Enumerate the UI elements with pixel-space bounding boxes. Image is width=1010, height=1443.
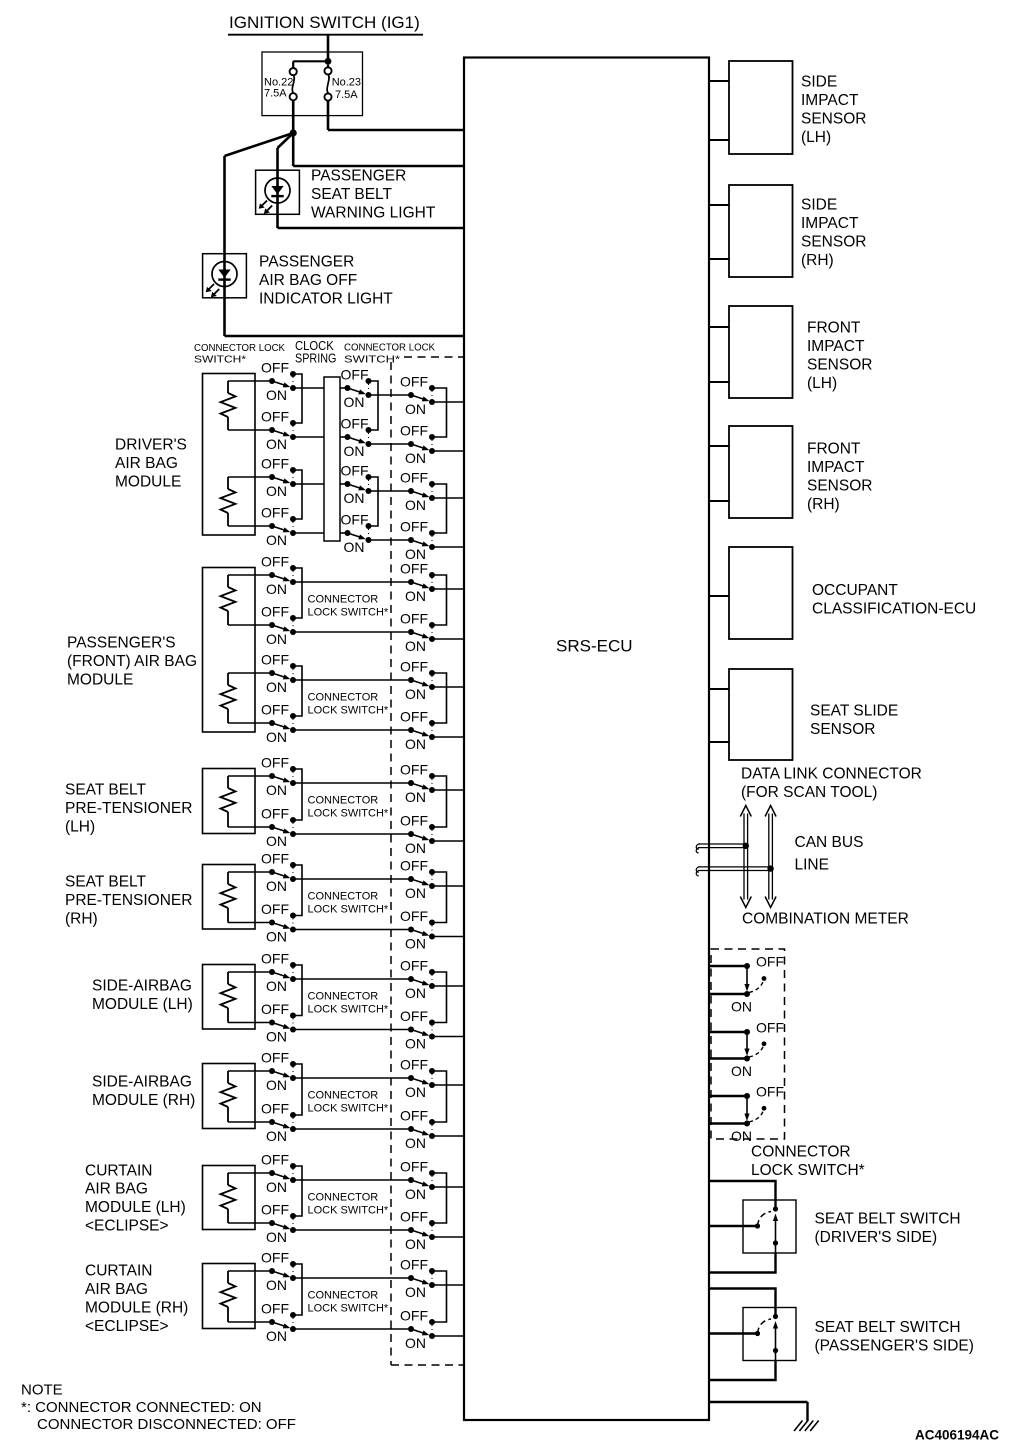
svg-text:ON: ON bbox=[344, 443, 365, 459]
svg-text:LOCK SWITCH*: LOCK SWITCH* bbox=[751, 1162, 865, 1179]
wire curtain air bag module (RH) row y=1271 to connector lock switch bbox=[228, 1270, 272, 1272]
shorting bar ECU-side driver's air bag module pair 1 bbox=[432, 388, 447, 437]
svg-text:ON: ON bbox=[405, 1135, 426, 1151]
wire warning light to SRS-ECU bbox=[278, 227, 465, 230]
svg-text:OFF: OFF bbox=[261, 652, 289, 668]
svg-text:SRS-ECU: SRS-ECU bbox=[556, 637, 633, 656]
svg-text:ON: ON bbox=[266, 1179, 287, 1195]
svg-text:SEAT BELT SWITCH: SEAT BELT SWITCH bbox=[815, 1319, 961, 1336]
svg-text:ON: ON bbox=[266, 833, 287, 849]
label connector lock switch of side-airbag module (RH) pair 1 bbox=[308, 1090, 389, 1115]
wire side-airbag module (LH) row y=972 to connector lock switch bbox=[228, 971, 272, 973]
svg-text:ON: ON bbox=[731, 1128, 752, 1144]
squib resistor 1 of curtain air bag module (RH) bbox=[221, 1271, 236, 1322]
wire stage2 to ECU-side lock switch row y=381 bbox=[369, 394, 412, 396]
wire stage1 to ECU-side lock switch row y=575 bbox=[293, 581, 411, 583]
junction box (fuse block) bbox=[262, 52, 363, 116]
svg-text:OFF: OFF bbox=[400, 470, 428, 486]
indicator lamp: passenger seat belt warning light bbox=[256, 170, 300, 214]
svg-text:OFF: OFF bbox=[261, 409, 289, 425]
label passenger's (front) air bag module bbox=[67, 635, 197, 689]
wire SRS-ECU to side impact sensor (LH) y=81 bbox=[709, 80, 729, 82]
svg-text:SIDE-AIRBAG: SIDE-AIRBAG bbox=[92, 978, 192, 995]
module box passenger's (front) air bag module bbox=[203, 568, 256, 733]
wire stage1 to ECU-side lock switch row y=922.5 bbox=[293, 929, 411, 931]
label seat slide sensor bbox=[810, 703, 898, 738]
wire to SRS-ECU row y=381 bbox=[432, 401, 464, 403]
svg-text:OFF: OFF bbox=[261, 851, 289, 867]
wire junction to SRS-ECU bbox=[293, 165, 464, 168]
ECU connector lock switch driver's air bag module row y=381 bbox=[400, 374, 435, 417]
svg-text:SEAT BELT: SEAT BELT bbox=[311, 186, 393, 203]
wire fuse No.23 down bbox=[327, 101, 330, 130]
wire seat belt pre-tensioner (RH) row y=922.5 to connector lock switch bbox=[228, 922, 272, 924]
ECU connector lock switch side-airbag module (RH) row y=1122 bbox=[400, 1108, 435, 1151]
connector lock switch stage2 driver's air bag module row y=526 bbox=[341, 512, 372, 555]
squib resistor 1 of passenger's (front) air bag module bbox=[221, 575, 236, 625]
ECU connector lock switch curtain air bag module (LH) row y=1173 bbox=[400, 1159, 435, 1202]
label seat belt switch (passenger's side) bbox=[815, 1319, 974, 1354]
wire to SRS-ECU row y=1322 bbox=[432, 1335, 464, 1337]
module box seat belt pre-tensioner (RH) bbox=[203, 865, 256, 930]
svg-text:CONNECTOR: CONNECTOR bbox=[308, 1090, 379, 1102]
svg-text:SENSOR: SENSOR bbox=[807, 478, 872, 495]
wire stage2 to ECU-side lock switch row y=430 bbox=[369, 443, 412, 445]
connector lock switch stage1 curtain air bag module (RH) row y=1271 bbox=[261, 1250, 296, 1293]
box front impact sensor (LH) bbox=[729, 306, 793, 398]
wire to SRS-ECU row y=1071 bbox=[432, 1084, 464, 1086]
CAN bus line 2 (twisted pair) bbox=[696, 867, 770, 876]
wire stage1 to clock spring row y=381 bbox=[293, 387, 324, 389]
connector lock switch stage1 passenger's (front) air bag module row y=625 bbox=[261, 604, 296, 647]
svg-text:ON: ON bbox=[405, 789, 426, 805]
shorting bar stage1 curtain air bag module (RH) pair 1 bbox=[293, 1264, 302, 1315]
junction CAN line 2 / arrow 2 bbox=[767, 865, 773, 871]
connector lock switch stage1 passenger's (front) air bag module row y=723 bbox=[261, 702, 296, 745]
wire stage1 to ECU-side lock switch row y=625 bbox=[293, 631, 411, 633]
wire SRS-ECU to side impact sensor (LH) y=140 bbox=[709, 139, 729, 141]
connector lock switch stage1 passenger's (front) air bag module row y=575 bbox=[261, 554, 296, 597]
wire side-airbag module (RH) row y=1071 to connector lock switch bbox=[228, 1070, 272, 1072]
ECU connector lock switch seat belt pre-tensioner (LH) row y=776 bbox=[400, 762, 435, 805]
squib resistor 1 of seat belt pre-tensioner (LH) bbox=[221, 776, 236, 827]
svg-text:SEAT BELT: SEAT BELT bbox=[65, 874, 147, 891]
svg-text:FRONT: FRONT bbox=[807, 441, 861, 458]
svg-text:ON: ON bbox=[266, 1277, 287, 1293]
svg-text:ON: ON bbox=[266, 1229, 287, 1245]
wire driver's air bag module row y=430 to connector lock switch bbox=[228, 429, 272, 431]
dashed boundary connector lock switch (right) bbox=[711, 949, 785, 1139]
wire seat belt pre-tensioner (LH) row y=776 to connector lock switch bbox=[228, 775, 272, 777]
shorting bar stage1 driver's air bag module pair 2 bbox=[293, 470, 302, 519]
shorting bar stage1 seat belt pre-tensioner (LH) pair 1 bbox=[293, 769, 302, 820]
box side impact sensor (LH) bbox=[729, 61, 793, 154]
svg-text:ON: ON bbox=[266, 631, 287, 647]
wire stage1 to ECU-side lock switch row y=776 bbox=[293, 782, 411, 784]
connector lock switch stage1 side-airbag module (RH) row y=1071 bbox=[261, 1050, 296, 1093]
connector lock switch stage1 passenger's (front) air bag module row y=673 bbox=[261, 652, 296, 695]
shorting bar ECU-side curtain air bag module (LH) pair 1 bbox=[432, 1173, 447, 1223]
svg-text:OFF: OFF bbox=[400, 561, 428, 577]
svg-text:(FRONT) AIR BAG: (FRONT) AIR BAG bbox=[67, 653, 197, 670]
shorting bar ECU-side seat belt pre-tensioner (RH) pair 1 bbox=[432, 872, 447, 923]
fuse No.23 7.5A bbox=[324, 65, 361, 101]
svg-text:WARNING LIGHT: WARNING LIGHT bbox=[311, 204, 436, 221]
label connector lock switch (right) bbox=[751, 1144, 865, 1179]
svg-text:COMBINATION METER: COMBINATION METER bbox=[742, 911, 909, 928]
module box side-airbag module (RH) bbox=[203, 1064, 256, 1129]
svg-text:OFF: OFF bbox=[400, 858, 428, 874]
svg-text:ON: ON bbox=[405, 736, 426, 752]
svg-text:CONNECTOR: CONNECTOR bbox=[308, 692, 379, 704]
svg-text:CONNECTOR LOCK: CONNECTOR LOCK bbox=[194, 342, 285, 354]
connector lock switch stage1 curtain air bag module (RH) row y=1322 bbox=[261, 1301, 296, 1344]
ECU connector lock switch seat belt pre-tensioner (LH) row y=827 bbox=[400, 813, 435, 856]
svg-text:(RH): (RH) bbox=[801, 252, 834, 269]
wire to SRS-ECU row y=827 bbox=[432, 840, 464, 842]
wire through passenger air bag off indicator light bbox=[223, 156, 226, 336]
wire stage1 to clock spring row y=477 bbox=[293, 483, 324, 485]
svg-text:(PASSENGER'S SIDE): (PASSENGER'S SIDE) bbox=[815, 1338, 974, 1355]
connector lock switch stage1 driver's air bag module row y=430 bbox=[261, 409, 296, 452]
wire junction diagonal to warning light bbox=[278, 133, 294, 148]
label CAN BUS bbox=[795, 834, 864, 851]
label connector lock switch of passenger's (front) air bag module pair 1 bbox=[308, 594, 389, 619]
svg-text:OFF: OFF bbox=[341, 463, 369, 479]
CAN bus arrow (to data link connector / combination meter) 1 bbox=[740, 806, 751, 908]
svg-text:AIR BAG: AIR BAG bbox=[115, 455, 178, 472]
ECU connector lock switch driver's air bag module row y=477 bbox=[400, 470, 435, 513]
svg-text:OFF: OFF bbox=[261, 806, 289, 822]
connector lock switch stage1 side-airbag module (LH) row y=972 bbox=[261, 951, 296, 994]
svg-text:SEAT BELT: SEAT BELT bbox=[65, 782, 147, 799]
svg-text:AIR BAG OFF: AIR BAG OFF bbox=[259, 272, 357, 289]
wire junction down bbox=[292, 133, 295, 166]
svg-text:ON: ON bbox=[266, 929, 287, 945]
shorting bar ECU-side side-airbag module (LH) pair 1 bbox=[432, 972, 447, 1023]
svg-text:MODULE: MODULE bbox=[115, 474, 181, 491]
label side impact sensor (LH) bbox=[801, 74, 866, 146]
label curtain air bag module (RH) bbox=[85, 1263, 188, 1335]
label connector lock switch of curtain air bag module (RH) pair 1 bbox=[308, 1290, 389, 1315]
svg-text:No.23: No.23 bbox=[332, 76, 361, 88]
wire to SRS-ECU row y=477 bbox=[432, 497, 464, 499]
ECU connector lock switch curtain air bag module (LH) row y=1223 bbox=[400, 1209, 435, 1252]
wire passenger's (front) air bag module row y=673 to connector lock switch bbox=[228, 672, 272, 674]
wire side-airbag module (LH) row y=1022.5 to connector lock switch bbox=[228, 1022, 272, 1024]
wire SRS-ECU to front impact sensor (LH) y=327 bbox=[709, 326, 729, 328]
shorting bar stage1 passenger's (front) air bag module pair 1 bbox=[293, 568, 302, 618]
shorting bar stage1 driver's air bag module pair 1 bbox=[293, 374, 302, 423]
label front impact sensor (LH) bbox=[807, 320, 872, 392]
wire down to fuse No.22 top terminal bbox=[292, 61, 294, 68]
wire through passenger seat belt warning light bbox=[276, 148, 279, 228]
wire seat belt pre-tensioner (LH) row y=827 to connector lock switch bbox=[228, 826, 272, 828]
wire clock spring to stage2 row y=381 bbox=[340, 387, 348, 389]
svg-text:CONNECTOR: CONNECTOR bbox=[308, 991, 379, 1003]
svg-text:PASSENGER: PASSENGER bbox=[259, 254, 354, 271]
svg-text:PRE-TENSIONER: PRE-TENSIONER bbox=[65, 800, 192, 817]
svg-text:ON: ON bbox=[405, 450, 426, 466]
wire to SRS-ECU row y=1122 bbox=[432, 1135, 464, 1137]
ECU connector lock switch seat belt pre-tensioner (RH) row y=922.5 bbox=[400, 908, 435, 951]
module box side-airbag module (LH) bbox=[203, 965, 256, 1030]
wire SRS-ECU to seat slide sensor y=689 bbox=[709, 688, 729, 690]
ECU connector lock switch side-airbag module (LH) row y=972 bbox=[400, 958, 435, 1001]
svg-text:OFF: OFF bbox=[400, 659, 428, 675]
shorting bar ECU-side driver's air bag module pair 2 bbox=[432, 484, 447, 533]
wire ignition switch to fuse junction bbox=[327, 35, 330, 62]
wire curtain air bag module (LH) row y=1223 to connector lock switch bbox=[228, 1222, 272, 1224]
connector lock switch stage1 driver's air bag module row y=381 bbox=[261, 360, 296, 403]
svg-text:OFF: OFF bbox=[400, 519, 428, 535]
svg-text:DRIVER'S: DRIVER'S bbox=[115, 437, 187, 454]
svg-text:MODULE (LH): MODULE (LH) bbox=[85, 1199, 186, 1216]
wire driver's air bag module row y=477 to connector lock switch bbox=[228, 476, 272, 478]
SRS-ECU U1 bbox=[464, 58, 709, 1421]
svg-text:CONNECTOR: CONNECTOR bbox=[308, 1290, 379, 1302]
wire curtain air bag module (LH) row y=1173 to connector lock switch bbox=[228, 1172, 272, 1174]
svg-text:OCCUPANT: OCCUPANT bbox=[812, 582, 898, 599]
svg-text:OFF: OFF bbox=[261, 951, 289, 967]
svg-text:CONNECTOR LOCK: CONNECTOR LOCK bbox=[344, 342, 435, 354]
wire driver's air bag module row y=526 to connector lock switch bbox=[228, 525, 272, 527]
wire indicator light to SRS-ECU bbox=[225, 335, 465, 338]
svg-text:*: CONNECTOR CONNECTED: ON: *: CONNECTOR CONNECTED: ON bbox=[21, 1399, 262, 1416]
label seat belt pre-tensioner (RH) bbox=[65, 874, 192, 928]
wire driver's air bag module row y=381 to connector lock switch bbox=[228, 380, 272, 382]
junction CAN line 1 / arrow 1 bbox=[743, 843, 749, 849]
ground stem bbox=[806, 1402, 808, 1421]
svg-text:(LH): (LH) bbox=[65, 819, 95, 836]
svg-text:ON: ON bbox=[344, 490, 365, 506]
svg-text:OFF: OFF bbox=[400, 1057, 428, 1073]
seat belt switch (passenger's side) bbox=[709, 1289, 796, 1381]
svg-text:ON: ON bbox=[405, 840, 426, 856]
wire fuse No.22 down to junction node bbox=[292, 100, 295, 133]
ECU connector lock switch driver's air bag module row y=526 bbox=[400, 519, 435, 562]
svg-text:LOCK SWITCH*: LOCK SWITCH* bbox=[308, 1205, 389, 1217]
svg-text:PASSENGER'S: PASSENGER'S bbox=[67, 635, 176, 652]
box front impact sensor (RH) bbox=[729, 426, 793, 518]
svg-text:OFF: OFF bbox=[400, 611, 428, 627]
svg-text:OFF: OFF bbox=[341, 512, 369, 528]
label seat belt pre-tensioner (LH) bbox=[65, 782, 192, 836]
shorting bar stage1 side-airbag module (LH) pair 1 bbox=[293, 965, 302, 1016]
label side-airbag module (RH) bbox=[92, 1074, 195, 1109]
svg-text:ON: ON bbox=[405, 638, 426, 654]
wire passenger's (front) air bag module row y=575 to connector lock switch bbox=[228, 574, 272, 576]
label connector lock switch (module side) bbox=[194, 342, 285, 366]
svg-text:OFF: OFF bbox=[261, 702, 289, 718]
wire fuse No.23 to SRS-ECU bbox=[328, 129, 464, 132]
label passenger air bag off indicator light bbox=[259, 254, 393, 308]
wire stage1 to ECU-side lock switch row y=1322 bbox=[293, 1328, 411, 1330]
shorting bar stage1 passenger's (front) air bag module pair 2 bbox=[293, 666, 302, 716]
svg-text:7.5A: 7.5A bbox=[335, 89, 358, 101]
svg-text:OFF: OFF bbox=[261, 901, 289, 917]
wire SRS-ECU to side impact sensor (RH) y=259 bbox=[709, 258, 729, 260]
svg-text:ON: ON bbox=[266, 1029, 287, 1045]
fuse No.22 7.5A bbox=[264, 68, 297, 100]
wire passenger's (front) air bag module row y=625 to connector lock switch bbox=[228, 624, 272, 626]
svg-text:ON: ON bbox=[405, 546, 426, 562]
label connector lock switch of side-airbag module (LH) pair 1 bbox=[308, 991, 389, 1016]
indicator lamp: passenger air bag off indicator light bbox=[203, 254, 247, 298]
wire to SRS-ECU row y=872 bbox=[432, 885, 464, 887]
shorting bar stage1 seat belt pre-tensioner (RH) pair 1 bbox=[293, 865, 302, 916]
svg-text:IMPACT: IMPACT bbox=[807, 459, 865, 476]
wire stage2 to ECU-side lock switch row y=526 bbox=[369, 539, 412, 541]
svg-text:MODULE (RH): MODULE (RH) bbox=[85, 1300, 188, 1317]
CAN bus line 1 (twisted pair) bbox=[696, 844, 746, 853]
squib resistor 2 of passenger's (front) air bag module bbox=[221, 673, 236, 723]
svg-text:OFF: OFF bbox=[261, 1050, 289, 1066]
wire SRS-ECU to front impact sensor (RH) y=501 bbox=[709, 500, 729, 502]
wire stage1 to ECU-side lock switch row y=1071 bbox=[293, 1077, 411, 1079]
svg-text:ON: ON bbox=[405, 497, 426, 513]
svg-text:SIDE: SIDE bbox=[801, 197, 837, 214]
wire SRS-ECU to ground bbox=[709, 1401, 808, 1403]
connector lock switch stage2 driver's air bag module row y=430 bbox=[341, 416, 372, 459]
svg-text:ON: ON bbox=[405, 1335, 426, 1351]
wire stage2 to ECU-side lock switch row y=477 bbox=[369, 490, 412, 492]
wire to SRS-ECU row y=1173 bbox=[432, 1186, 464, 1188]
svg-text:OFF: OFF bbox=[756, 1084, 784, 1100]
junction ignition feed node bbox=[325, 58, 332, 65]
connector lock switch stage2 driver's air bag module row y=381 bbox=[341, 367, 372, 410]
ECU connector lock switch passenger's (front) air bag module row y=575 bbox=[400, 561, 435, 604]
wire to SRS-ECU row y=673 bbox=[432, 686, 464, 688]
note text bbox=[21, 1381, 296, 1433]
svg-text:LINE: LINE bbox=[795, 857, 829, 874]
svg-text:OFF: OFF bbox=[261, 604, 289, 620]
svg-text:OFF: OFF bbox=[756, 954, 784, 970]
svg-text:ON: ON bbox=[266, 679, 287, 695]
connector lock switch right unit 2 bbox=[709, 1020, 784, 1080]
wire clock spring to stage2 row y=477 bbox=[340, 483, 348, 485]
svg-text:ON: ON bbox=[344, 394, 365, 410]
shorting bar ECU-side side-airbag module (RH) pair 1 bbox=[432, 1071, 447, 1122]
svg-text:ON: ON bbox=[266, 1077, 287, 1093]
svg-text:SPRING: SPRING bbox=[295, 350, 336, 365]
svg-text:ON: ON bbox=[731, 1063, 752, 1079]
wire to SRS-ECU row y=526 bbox=[432, 546, 464, 548]
wire passenger's (front) air bag module row y=723 to connector lock switch bbox=[228, 722, 272, 724]
svg-text:OFF: OFF bbox=[400, 762, 428, 778]
dashed boundary ECU connector lock switches bbox=[391, 357, 464, 1365]
wire stage1 to ECU-side lock switch row y=1122 bbox=[293, 1128, 411, 1130]
wire SRS-ECU to side impact sensor (RH) y=205 bbox=[709, 204, 729, 206]
ground symbol bbox=[794, 1421, 819, 1432]
svg-text:OFF: OFF bbox=[400, 1008, 428, 1024]
svg-text:ON: ON bbox=[266, 581, 287, 597]
clock spring bbox=[324, 377, 340, 541]
svg-text:LOCK SWITCH*: LOCK SWITCH* bbox=[308, 904, 389, 916]
svg-text:IGNITION SWITCH (IG1): IGNITION SWITCH (IG1) bbox=[229, 13, 420, 32]
ECU connector lock switch passenger's (front) air bag module row y=723 bbox=[400, 709, 435, 752]
svg-text:ON: ON bbox=[405, 1036, 426, 1052]
svg-text:(LH): (LH) bbox=[801, 129, 831, 146]
svg-text:ON: ON bbox=[266, 1328, 287, 1344]
connector lock switch stage1 seat belt pre-tensioner (LH) row y=776 bbox=[261, 755, 296, 798]
label driver's air bag module bbox=[115, 437, 187, 491]
svg-text:ON: ON bbox=[266, 387, 287, 403]
wire to SRS-ECU row y=776 bbox=[432, 789, 464, 791]
svg-text:ON: ON bbox=[266, 978, 287, 994]
svg-text:SEAT SLIDE: SEAT SLIDE bbox=[810, 703, 898, 720]
svg-text:MODULE: MODULE bbox=[67, 672, 133, 689]
svg-text:(DRIVER'S SIDE): (DRIVER'S SIDE) bbox=[815, 1229, 938, 1246]
svg-text:ON: ON bbox=[405, 885, 426, 901]
shorting bar stage1 curtain air bag module (LH) pair 1 bbox=[293, 1166, 302, 1216]
label LINE bbox=[795, 857, 829, 874]
svg-text:7.5A: 7.5A bbox=[264, 87, 287, 99]
box side impact sensor (RH) bbox=[729, 185, 793, 277]
svg-text:FRONT: FRONT bbox=[807, 320, 861, 337]
svg-text:(RH): (RH) bbox=[807, 496, 840, 513]
svg-text:ON: ON bbox=[405, 985, 426, 1001]
svg-text:PRE-TENSIONER: PRE-TENSIONER bbox=[65, 892, 192, 909]
svg-text:SENSOR: SENSOR bbox=[801, 111, 866, 128]
CAN bus arrow (to data link connector / combination meter) 2 bbox=[765, 806, 776, 908]
ECU connector lock switch passenger's (front) air bag module row y=625 bbox=[400, 611, 435, 654]
svg-text:CONNECTOR: CONNECTOR bbox=[751, 1144, 851, 1161]
wire stage1 to ECU-side lock switch row y=673 bbox=[293, 679, 411, 681]
wire stage1 to ECU-side lock switch row y=1271 bbox=[293, 1277, 411, 1279]
connector lock switch stage1 curtain air bag module (LH) row y=1223 bbox=[261, 1202, 296, 1245]
svg-text:OFF: OFF bbox=[400, 1108, 428, 1124]
svg-text:AC406194AC: AC406194AC bbox=[915, 1427, 999, 1442]
svg-text:ON: ON bbox=[266, 436, 287, 452]
label data link connector (for scan tool) bbox=[741, 766, 922, 801]
seat belt switch (driver's side) bbox=[709, 1181, 796, 1273]
svg-text:SIDE: SIDE bbox=[801, 74, 837, 91]
label connector lock switch of seat belt pre-tensioner (RH) pair 1 bbox=[308, 891, 389, 916]
svg-text:OFF: OFF bbox=[261, 1250, 289, 1266]
svg-text:OFF: OFF bbox=[756, 1020, 784, 1036]
ECU connector lock switch passenger's (front) air bag module row y=673 bbox=[400, 659, 435, 702]
label occupant classification-ECU bbox=[812, 582, 976, 617]
squib resistor 2 of driver's air bag module bbox=[221, 477, 236, 526]
label connector lock switch of seat belt pre-tensioner (LH) pair 1 bbox=[308, 795, 389, 820]
wire stage1 to ECU-side lock switch row y=872 bbox=[293, 878, 411, 880]
wire to SRS-ECU row y=430 bbox=[432, 450, 464, 452]
svg-text:ON: ON bbox=[344, 539, 365, 555]
squib resistor 1 of curtain air bag module (LH) bbox=[221, 1173, 236, 1223]
shorting bar stage2 driver's air bag module pair 2 bbox=[369, 477, 379, 526]
box seat slide sensor bbox=[729, 669, 793, 760]
svg-text:ON: ON bbox=[405, 686, 426, 702]
wire to SRS-ECU row y=972 bbox=[432, 985, 464, 987]
svg-text:ON: ON bbox=[731, 999, 752, 1015]
svg-text:CONNECTOR: CONNECTOR bbox=[308, 891, 379, 903]
svg-text:OFF: OFF bbox=[400, 1159, 428, 1175]
label front impact sensor (RH) bbox=[807, 441, 872, 513]
svg-text:OFF: OFF bbox=[400, 1209, 428, 1225]
svg-text:OFF: OFF bbox=[261, 1101, 289, 1117]
label connector lock switch (harness side) bbox=[344, 342, 435, 366]
svg-text:ON: ON bbox=[266, 782, 287, 798]
squib resistor 1 of side-airbag module (RH) bbox=[221, 1071, 236, 1122]
wire clock spring to stage2 row y=430 bbox=[340, 436, 348, 438]
wire stage1 to clock spring row y=526 bbox=[293, 532, 324, 534]
svg-text:LOCK SWITCH*: LOCK SWITCH* bbox=[308, 607, 389, 619]
svg-text:LOCK SWITCH*: LOCK SWITCH* bbox=[308, 808, 389, 820]
svg-text:NOTE: NOTE bbox=[21, 1381, 63, 1398]
svg-text:IMPACT: IMPACT bbox=[807, 338, 865, 355]
svg-text:ON: ON bbox=[405, 1284, 426, 1300]
